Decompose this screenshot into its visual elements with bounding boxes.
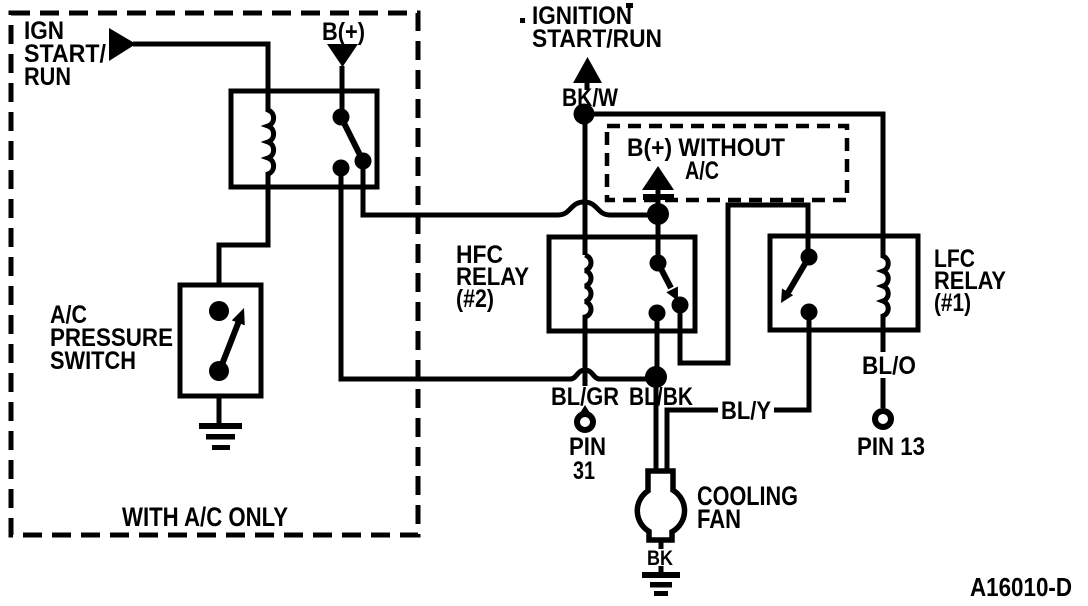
label COOLING FAN (697, 481, 798, 534)
speck dash top center (626, 3, 633, 8)
svg-text:FAN: FAN (697, 504, 741, 534)
svg-text:A16010-D: A16010-D (970, 572, 1072, 602)
svg-text:B(+): B(+) (322, 18, 365, 46)
wire relay K1 common to BL/BK junction (341, 168, 656, 379)
wire relay K1 NO contact to HFC junction (363, 161, 658, 215)
HFC relay coil (585, 255, 591, 331)
wire BK/W vertical to HFC coil (583, 114, 588, 255)
ground (below pressure switch) (199, 423, 242, 450)
svg-text:A/C: A/C (685, 157, 719, 185)
label LFC RELAY (#1) (934, 245, 1006, 317)
svg-text:WITH A/C ONLY: WITH A/C ONLY (122, 502, 288, 532)
wire BL/O to PIN 13 (881, 378, 886, 408)
label IGN START/RUN (24, 17, 106, 91)
pin PIN 31 terminal circle (577, 405, 593, 430)
speck dot before IGNITION (520, 18, 525, 23)
cooling fan motor (637, 471, 684, 540)
wire pressure switch to ground (217, 396, 222, 424)
wire BK/W junction to LFC coil (584, 114, 883, 237)
wire HFC NO contact to LFC switch common (S-route) (680, 205, 808, 363)
node junction B(+)/HFC (647, 203, 669, 225)
wire relay K1 coil to pressure switch (219, 187, 268, 286)
svg-text:(#2): (#2) (456, 285, 494, 313)
wire hop over BL/GR wire (570, 370, 600, 379)
connector IGNITION START/RUN (up triangle) (573, 57, 602, 83)
ground (below cooling fan) (642, 572, 680, 596)
wire IGN arrow to relay coil (133, 44, 268, 92)
svg-text:31: 31 (573, 457, 595, 485)
A/C pressure switch contacts and arm (209, 301, 245, 381)
wire LFC coil to BL/O (881, 330, 886, 352)
connector B(+) (down triangle) (327, 44, 358, 67)
node BK/W junction (574, 104, 595, 125)
LFC relay box (770, 236, 918, 330)
connector B(+) WITHOUT A/C (up triangle with bar) (642, 166, 674, 207)
wire fan to BK (659, 540, 664, 549)
label A/C PRESSURE SWITCH (50, 301, 173, 375)
A/C pressure switch box (180, 285, 261, 396)
svg-text:BL/BK: BL/BK (629, 383, 693, 411)
connector IGN START/RUN (arrow) (109, 28, 136, 61)
svg-text:START/RUN: START/RUN (532, 25, 662, 53)
relay K1 coil (268, 91, 274, 187)
svg-text:PIN 13: PIN 13 (857, 433, 925, 461)
dashed box B(+) WITHOUT A/C (607, 126, 847, 200)
node BL/BK junction (645, 366, 667, 388)
HFC relay switch (649, 255, 689, 322)
wire HFC common contact down to BL/BK junction (655, 313, 660, 377)
svg-text:RUN: RUN (24, 63, 71, 91)
svg-text:BL/O: BL/O (862, 352, 916, 380)
label PIN 31 (569, 433, 606, 485)
wire hop over BK/W wire (558, 202, 610, 215)
HFC relay box (549, 237, 695, 331)
relay K1 switch (333, 109, 372, 177)
LFC relay coil (883, 237, 888, 330)
label IGNITION START/RUN (532, 2, 662, 53)
pin PIN 13 terminal circle (875, 411, 891, 427)
svg-text:(#1): (#1) (934, 289, 971, 317)
label B(+) WITHOUT A/C (627, 134, 785, 185)
wire B(+) to relay switch (340, 66, 345, 117)
wire BK to ground (659, 566, 664, 572)
label HFC RELAY (#2) (456, 241, 529, 313)
dashed enclosure WITH A/C ONLY (11, 13, 418, 535)
svg-text:BL/Y: BL/Y (721, 397, 771, 425)
wire BL/GR below HFC coil (583, 331, 588, 386)
wire LFC NC contact to BL/Y (667, 312, 809, 472)
svg-text:SWITCH: SWITCH (50, 347, 136, 375)
wire junction to HFC switch common (656, 213, 661, 256)
relay K1 (A/C condenser fan relay) box (231, 91, 377, 187)
LFC relay switch (781, 249, 818, 321)
wire BL/BK junction to cooling fan (654, 377, 659, 472)
